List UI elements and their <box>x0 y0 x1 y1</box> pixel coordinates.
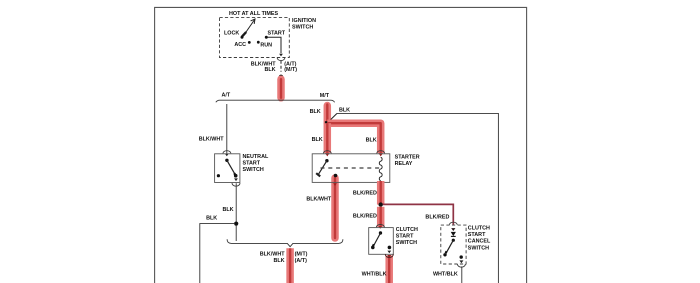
ignition switch position dots LOCK ACC RUN START <box>241 36 244 39</box>
svg-text:A/T: A/T <box>222 93 231 99</box>
svg-text:RUN: RUN <box>260 42 272 48</box>
svg-text:BLK: BLK <box>312 137 323 143</box>
svg-text:BLK/WHT: BLK/WHT <box>199 137 225 143</box>
svg-text:CLUTCH: CLUTCH <box>396 227 418 233</box>
ignition output connector (arrow + cup) <box>279 54 283 57</box>
svg-text:WHT/BLK: WHT/BLK <box>433 272 458 278</box>
red wire from junction square to relay right coil <box>327 123 380 153</box>
svg-text:BLK/RED: BLK/RED <box>425 215 449 221</box>
junction square on M/T wire <box>325 121 329 125</box>
clutch start cancel switch dashed box <box>441 225 466 264</box>
svg-text:START: START <box>396 234 414 240</box>
red wire WHT/BLK down to bottom <box>385 256 393 283</box>
thin BLK/RED wire to clutch start cancel switch <box>383 204 453 224</box>
red wire BLK/RED from relay down to junction <box>377 181 385 205</box>
relay entry connectors (domes + red arrows) <box>323 151 331 154</box>
WHT/BLK wire from cancel switch to bottom <box>461 266 463 283</box>
wire stub below ignition connector (dashed) <box>280 61 282 72</box>
svg-text:WHT/BLK: WHT/BLK <box>362 271 387 277</box>
neutral start switch box <box>215 154 240 183</box>
red wire BLK/RED from junction down to clutch start switch <box>377 207 385 227</box>
svg-text:IGNITION: IGNITION <box>292 18 316 24</box>
ignition switch dashed box <box>220 18 290 58</box>
wire from junction down to merge brace <box>235 226 237 241</box>
svg-text:START: START <box>268 31 286 37</box>
red highlighted wire from ignition down to split <box>277 79 285 98</box>
red wire from junction square down to relay switch <box>324 123 332 153</box>
svg-text:NEUTRAL: NEUTRAL <box>243 154 269 160</box>
svg-text:BLK/RED: BLK/RED <box>353 190 377 196</box>
clutch start switch box <box>369 228 394 255</box>
svg-text:START: START <box>468 232 486 238</box>
merge brace <box>227 239 343 246</box>
svg-text:BLK/RED: BLK/RED <box>353 214 377 220</box>
svg-text:RELAY: RELAY <box>395 161 413 167</box>
clutch start switch entry connector <box>376 225 384 228</box>
ignition switch wiper arrow <box>242 32 246 37</box>
A/T branch wire down to neutral start switch <box>226 104 228 154</box>
svg-text:BLK: BLK <box>339 108 350 114</box>
cancel switch entry connector <box>449 222 457 225</box>
starter relay box <box>312 154 390 183</box>
long BLK wire right then down to bottom <box>337 113 498 283</box>
svg-text:BLK/WHT: BLK/WHT <box>306 196 332 202</box>
svg-text:CANCEL: CANCEL <box>468 239 491 245</box>
svg-text:STARTER: STARTER <box>395 154 420 160</box>
wire from START contact to ignition output <box>268 37 282 53</box>
svg-text:(M/T): (M/T) <box>284 67 297 73</box>
cancel switch contacts <box>452 239 455 242</box>
svg-text:(M/T): (M/T) <box>295 252 308 258</box>
relay switch contact <box>325 159 328 162</box>
wire from junction going left then down off page <box>200 224 234 283</box>
neutral switch entry connector (dome + arrow) <box>223 151 231 154</box>
node dot above red wire <box>279 75 283 79</box>
M/T branch red wire down to junction square <box>324 105 332 124</box>
relay internal dashed link <box>321 167 381 169</box>
clutch start switch exit connector <box>387 251 391 254</box>
svg-text:SWITCH: SWITCH <box>243 167 264 173</box>
svg-text:BLK: BLK <box>310 109 321 115</box>
wire from neutral switch to junction <box>235 183 237 222</box>
svg-text:BLK: BLK <box>265 67 276 73</box>
relay coil <box>379 157 382 180</box>
svg-text:M/T: M/T <box>320 93 330 99</box>
diagram border frame <box>155 7 527 283</box>
neutral start switch contacts <box>225 159 228 162</box>
merged red output wire to bottom <box>286 248 294 283</box>
red wire BLK/WHT from relay left output down to merge brace <box>331 178 339 238</box>
svg-text:START: START <box>243 161 261 167</box>
svg-text:BLK: BLK <box>206 216 217 222</box>
neutral switch exit connector (arrow + cup) <box>234 178 238 181</box>
svg-text:(A/T): (A/T) <box>295 258 307 264</box>
svg-text:BLK: BLK <box>223 207 234 213</box>
svg-text:ACC: ACC <box>234 42 246 48</box>
svg-text:SWITCH: SWITCH <box>468 245 489 251</box>
A/T - M/T split bar <box>216 100 335 102</box>
hook from junction to BLK line <box>329 113 337 121</box>
svg-text:HOT AT ALL TIMES: HOT AT ALL TIMES <box>229 11 279 17</box>
relay exit red arrows <box>333 183 337 186</box>
clutch start switch contacts <box>379 231 382 234</box>
svg-text:BLK: BLK <box>274 258 285 264</box>
svg-text:SWITCH: SWITCH <box>396 240 417 246</box>
svg-text:BLK/WHT: BLK/WHT <box>260 252 286 258</box>
cancel switch exit connector <box>459 260 463 263</box>
junction node on BLK/RED wire <box>379 202 383 206</box>
junction node <box>234 222 238 226</box>
svg-text:SWITCH: SWITCH <box>292 25 313 31</box>
svg-text:BLK: BLK <box>366 138 377 144</box>
svg-text:CLUTCH: CLUTCH <box>468 225 490 231</box>
svg-text:LOCK: LOCK <box>224 31 239 37</box>
cancel switch diode <box>451 232 456 236</box>
